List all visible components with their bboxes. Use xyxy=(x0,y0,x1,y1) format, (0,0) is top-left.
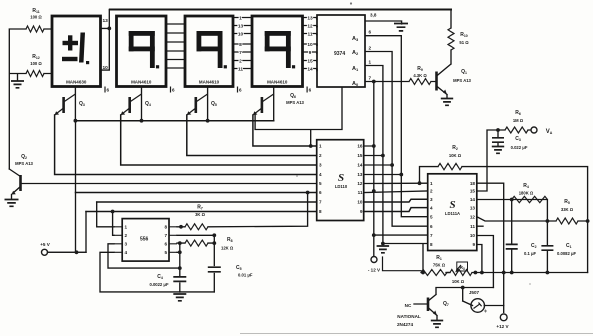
svg-text:0.0082 μF: 0.0082 μF xyxy=(557,251,577,256)
svg-text:1M Ω: 1M Ω xyxy=(513,118,524,123)
svg-text:12: 12 xyxy=(470,214,476,219)
svg-text:MAN4610: MAN4610 xyxy=(131,80,152,85)
svg-text:7: 7 xyxy=(239,50,242,56)
svg-text:9: 9 xyxy=(472,242,475,247)
svg-text:1: 1 xyxy=(369,60,372,65)
svg-text:6: 6 xyxy=(369,30,372,35)
svg-text:2N4274: 2N4274 xyxy=(397,322,414,327)
svg-text:10: 10 xyxy=(238,32,244,38)
svg-text:15: 15 xyxy=(470,189,476,194)
svg-text:51 Ω: 51 Ω xyxy=(459,40,469,45)
svg-text:4: 4 xyxy=(430,205,433,210)
svg-text:2: 2 xyxy=(125,233,128,238)
svg-text:4.3K Ω: 4.3K Ω xyxy=(413,73,427,78)
svg-text:A1: A1 xyxy=(352,66,359,72)
svg-text:2: 2 xyxy=(369,46,372,51)
svg-text:100 Ω: 100 Ω xyxy=(30,15,42,20)
svg-text:556: 556 xyxy=(140,237,149,243)
svg-text:NC: NC xyxy=(405,303,412,308)
svg-text:7: 7 xyxy=(164,233,167,238)
svg-text:+12 V: +12 V xyxy=(496,324,509,329)
svg-text:1: 1 xyxy=(430,181,433,186)
svg-text:12K Ω: 12K Ω xyxy=(221,246,234,251)
svg-text:1: 1 xyxy=(319,144,322,149)
svg-text:2: 2 xyxy=(430,189,433,194)
svg-text:2: 2 xyxy=(239,59,242,65)
svg-text:7: 7 xyxy=(319,200,322,205)
svg-text:18: 18 xyxy=(470,181,476,186)
svg-text:6: 6 xyxy=(107,88,110,93)
svg-text:e: e xyxy=(316,51,318,55)
svg-text:13: 13 xyxy=(238,24,244,30)
svg-text:6: 6 xyxy=(239,88,242,93)
svg-text:7: 7 xyxy=(430,233,433,238)
svg-text:5: 5 xyxy=(319,181,322,186)
svg-text:2: 2 xyxy=(319,153,322,158)
svg-text:0.0022 μF: 0.0022 μF xyxy=(149,282,169,287)
svg-text:0.1 μF: 0.1 μF xyxy=(524,251,537,256)
svg-text:3: 3 xyxy=(125,242,128,247)
svg-text:1: 1 xyxy=(125,225,128,230)
svg-text:16: 16 xyxy=(357,144,363,149)
svg-text:9: 9 xyxy=(360,209,363,214)
svg-text:J507: J507 xyxy=(469,290,480,295)
svg-text:LD111A: LD111A xyxy=(445,211,460,216)
svg-text:4: 4 xyxy=(319,172,322,177)
svg-text:6: 6 xyxy=(172,88,175,93)
svg-text:- 12 V: - 12 V xyxy=(368,268,381,273)
svg-text:9374: 9374 xyxy=(334,51,345,57)
svg-text:A0: A0 xyxy=(352,81,359,87)
svg-text:3: 3 xyxy=(319,163,322,168)
svg-text:10K Ω: 10K Ω xyxy=(452,279,465,284)
svg-text:180K Ω: 180K Ω xyxy=(519,191,534,196)
svg-text:14: 14 xyxy=(307,67,313,73)
svg-text:11: 11 xyxy=(358,190,363,195)
svg-text:13: 13 xyxy=(103,18,109,24)
svg-text:S: S xyxy=(338,172,344,184)
svg-text:14: 14 xyxy=(357,163,363,168)
svg-text:3,8: 3,8 xyxy=(370,13,377,18)
svg-text:9: 9 xyxy=(309,50,312,56)
svg-text:0.01 μF: 0.01 μF xyxy=(238,273,253,278)
svg-text:11: 11 xyxy=(307,32,312,38)
svg-text:8: 8 xyxy=(430,242,433,247)
svg-text:MPS A13: MPS A13 xyxy=(15,161,33,166)
svg-text:MAN4630: MAN4630 xyxy=(66,80,87,85)
svg-text:S: S xyxy=(449,199,455,211)
svg-text:10: 10 xyxy=(470,233,476,238)
svg-text:3: 3 xyxy=(430,197,433,202)
svg-text:11: 11 xyxy=(470,224,475,229)
svg-text:6: 6 xyxy=(430,224,433,229)
svg-text:MPS A13: MPS A13 xyxy=(286,100,304,105)
svg-text:12: 12 xyxy=(357,181,363,186)
svg-text:MAN4610: MAN4610 xyxy=(199,80,220,85)
svg-text:6: 6 xyxy=(319,190,322,195)
svg-text:6: 6 xyxy=(309,88,312,93)
svg-text:8: 8 xyxy=(164,225,167,230)
svg-text:4: 4 xyxy=(125,250,128,255)
svg-text:MAN4610: MAN4610 xyxy=(267,80,288,85)
svg-text:8: 8 xyxy=(239,42,242,48)
svg-text:5: 5 xyxy=(430,214,433,219)
svg-text:14: 14 xyxy=(470,197,476,202)
svg-text:c: c xyxy=(316,32,318,36)
svg-text:75K Ω: 75K Ω xyxy=(433,263,446,268)
svg-text:15: 15 xyxy=(307,59,313,65)
svg-text:6: 6 xyxy=(164,242,167,247)
svg-text:7: 7 xyxy=(369,76,372,81)
svg-text:+5 V: +5 V xyxy=(40,242,51,247)
svg-text:100 Ω: 100 Ω xyxy=(30,61,42,66)
svg-text:A2: A2 xyxy=(352,50,359,56)
svg-text:11: 11 xyxy=(238,67,243,73)
svg-text:3K Ω: 3K Ω xyxy=(195,212,206,217)
svg-text:8: 8 xyxy=(319,209,322,214)
svg-text:12: 12 xyxy=(307,24,313,30)
svg-text:33K Ω: 33K Ω xyxy=(561,207,574,212)
svg-text:LD110: LD110 xyxy=(335,184,348,189)
svg-text:10: 10 xyxy=(357,200,363,205)
svg-text:0.022 μF: 0.022 μF xyxy=(511,145,528,150)
svg-text:5: 5 xyxy=(164,250,167,255)
svg-text:1: 1 xyxy=(239,16,242,22)
svg-text:13: 13 xyxy=(307,16,313,22)
svg-text:MPS A13: MPS A13 xyxy=(453,78,471,83)
svg-text:A3: A3 xyxy=(352,36,359,42)
svg-text:10K Ω: 10K Ω xyxy=(449,153,462,158)
svg-text:10: 10 xyxy=(307,42,313,48)
svg-text:13: 13 xyxy=(357,172,363,177)
svg-text:15: 15 xyxy=(357,153,363,158)
svg-text:13: 13 xyxy=(470,205,476,210)
svg-text:NATIONAL: NATIONAL xyxy=(397,314,421,319)
svg-text:10: 10 xyxy=(103,65,109,71)
